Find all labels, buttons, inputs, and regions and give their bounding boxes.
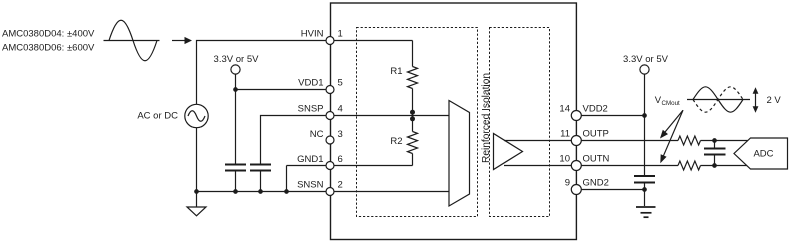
wire GND2 to pin 9 bbox=[576, 189, 645, 191]
node GND2 junction bbox=[642, 187, 647, 192]
svg-text:AMC0380D06: ±600V: AMC0380D06: ±600V bbox=[2, 43, 95, 54]
ground (right, earth bars) bbox=[636, 190, 656, 218]
wire R4 to ADC bbox=[701, 165, 748, 167]
left pin numbers bbox=[338, 29, 343, 191]
wire R3 to ADC bbox=[701, 140, 748, 142]
svg-text:14: 14 bbox=[559, 104, 570, 115]
pin 3 NC circle bbox=[326, 136, 334, 144]
svg-text:Reinforced Isolation: Reinforced Isolation bbox=[481, 73, 492, 163]
ground (left, chassis triangle) bbox=[187, 192, 206, 216]
node R1/SNSP junction bbox=[410, 110, 415, 115]
wire SNSP to pin 4 bbox=[261, 116, 450, 164]
svg-text:AMC0380D04: ±400V: AMC0380D04: ±400V bbox=[2, 29, 95, 40]
wire OUTN triangle to pin 10 and R4 bbox=[504, 165, 678, 167]
wire VDD2 to pin 14 bbox=[576, 115, 645, 117]
right pin labels bbox=[583, 104, 610, 189]
differential output waveform axis bbox=[687, 99, 750, 101]
svg-text:AC or DC: AC or DC bbox=[137, 111, 178, 122]
wire OUTP triangle to pin 11 and R3 bbox=[504, 140, 678, 142]
differential output waveform solid lobes bbox=[693, 87, 743, 112]
wire VDD2 supply vertical to C4 bbox=[644, 74, 646, 176]
svg-text:SNSP: SNSP bbox=[298, 104, 324, 115]
op-amp / device U1 outline bbox=[331, 3, 577, 240]
svg-text:VDD1: VDD1 bbox=[298, 78, 323, 89]
wire HVIN from source corner to pin 1 bbox=[197, 41, 413, 105]
pin 11 OUTP circle bbox=[571, 136, 581, 146]
2V peak-to-peak arrow bbox=[753, 87, 759, 112]
node C2 to SNSN rail bbox=[258, 189, 263, 194]
wire VDD1 supply vertical bbox=[235, 74, 237, 164]
node SNSN at ground bbox=[194, 189, 199, 194]
capacitor C1 (VDD1 bypass) bbox=[225, 165, 246, 192]
svg-text:SNSN: SNSN bbox=[297, 180, 324, 191]
ADC block bbox=[734, 138, 788, 169]
svg-text:VDD2: VDD2 bbox=[583, 104, 608, 115]
svg-text:6: 6 bbox=[338, 154, 343, 165]
svg-text:5: 5 bbox=[338, 78, 343, 89]
output amplifier triangle bbox=[494, 134, 523, 170]
svg-text:ADC: ADC bbox=[753, 149, 773, 160]
pin 2 SNSN circle bbox=[326, 188, 334, 196]
svg-text:2: 2 bbox=[338, 180, 343, 191]
annotation arrow to OUTP bbox=[660, 110, 683, 138]
pin 4 SNSP circle bbox=[326, 112, 334, 120]
svg-text:11: 11 bbox=[560, 129, 570, 140]
sine wave input symbol axis bbox=[104, 40, 160, 42]
svg-text:GND2: GND2 bbox=[583, 178, 609, 189]
svg-text:OUTN: OUTN bbox=[583, 154, 610, 165]
node VDD1 junction bbox=[233, 87, 238, 92]
annotation arrow to OUTN bbox=[660, 110, 683, 163]
wire GND1 to R2 bottom bbox=[287, 165, 413, 167]
shunt input dashed block bbox=[357, 28, 478, 217]
resistor R2 bbox=[408, 116, 418, 166]
differential output waveform dashed lobes bbox=[693, 87, 743, 112]
capacitor C2 (SNSP filter) bbox=[250, 165, 271, 192]
node OUTP at C3 bbox=[712, 138, 717, 143]
resistor R1 bbox=[408, 41, 418, 116]
svg-text:NC: NC bbox=[310, 129, 324, 140]
resistor R3 (OUTP series) bbox=[678, 136, 701, 145]
label VCMout bbox=[655, 95, 680, 107]
pin 1 HVIN circle bbox=[326, 37, 334, 45]
svg-text:9: 9 bbox=[565, 178, 570, 189]
svg-text:2 V: 2 V bbox=[767, 95, 782, 106]
input attenuator trapezoid bbox=[449, 101, 470, 207]
capacitor C4 (VDD2 bypass) bbox=[634, 176, 655, 190]
input arrow bbox=[172, 37, 192, 44]
right pin numbers bbox=[559, 104, 570, 189]
wire GND1 to SNSN rail bbox=[286, 166, 288, 192]
pin 9 GND2 circle bbox=[571, 185, 581, 195]
wire AC source to SNSN rail bbox=[196, 128, 198, 192]
svg-text:R2: R2 bbox=[390, 136, 402, 147]
svg-text:4: 4 bbox=[338, 104, 343, 115]
node VDD2 junction bbox=[642, 113, 647, 118]
wire SNSN rail bbox=[197, 191, 450, 193]
svg-text:GND1: GND1 bbox=[297, 154, 323, 165]
svg-text:OUTP: OUTP bbox=[583, 129, 609, 140]
svg-text:R1: R1 bbox=[390, 66, 402, 77]
node OUTN at C3 bbox=[712, 163, 717, 168]
wire VDD1 to pin 5 bbox=[236, 89, 331, 91]
node R2/SNSP junction bbox=[410, 116, 415, 121]
pin 6 GND1 circle bbox=[326, 162, 334, 170]
supply terminal circle (right) bbox=[640, 65, 649, 74]
node C1 to SNSN rail bbox=[233, 189, 238, 194]
node GND1 junction bbox=[284, 189, 289, 194]
pin 10 OUTN circle bbox=[571, 161, 581, 171]
svg-text:HVIN: HVIN bbox=[301, 29, 324, 40]
pin 14 VDD2 circle bbox=[571, 111, 581, 121]
AC source V1 bbox=[185, 104, 208, 127]
resistor R4 (OUTN series) bbox=[678, 161, 701, 170]
svg-text:3.3V or 5V: 3.3V or 5V bbox=[214, 54, 260, 65]
svg-text:3.3V or 5V: 3.3V or 5V bbox=[623, 54, 669, 65]
capacitor C3 (differential, at ADC input) bbox=[704, 141, 726, 166]
svg-text:CMout: CMout bbox=[662, 100, 681, 107]
pin 5 VDD1 circle bbox=[326, 86, 334, 94]
svg-text:1: 1 bbox=[338, 29, 343, 40]
sine wave input symbol curve bbox=[109, 20, 157, 61]
left pin labels bbox=[297, 29, 324, 191]
isolation output dashed block bbox=[490, 28, 550, 217]
svg-text:3: 3 bbox=[338, 129, 343, 140]
supply terminal circle (left) bbox=[231, 65, 240, 74]
svg-text:10: 10 bbox=[559, 154, 570, 165]
